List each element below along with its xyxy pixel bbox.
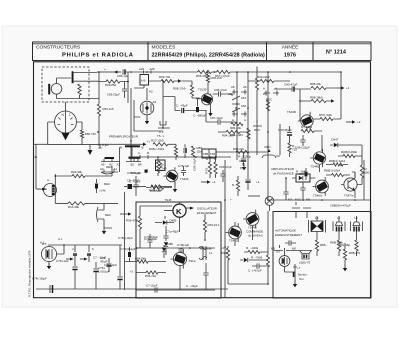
svg-text:R··-0k8: R··-0k8 — [296, 170, 306, 174]
connector box wires — [48, 122, 99, 145]
junction (207,72) — [206, 71, 208, 73]
ground gnd TSL39 — [208, 110, 212, 117]
junction (210,157) — [209, 156, 211, 158]
oscillator box — [136, 202, 221, 298]
capacitor C96 — [300, 140, 305, 142]
resistor R061 — [332, 173, 344, 176]
connector A26 box — [140, 75, 149, 86]
svg-text:A··: A·· — [47, 178, 51, 182]
capacitor C83c — [220, 174, 225, 176]
svg-text:L5(8)-T5: L5(8)-T5 — [299, 261, 310, 265]
svg-text:A·: A· — [275, 87, 278, 91]
junction (196,157) — [195, 156, 197, 158]
transistor TS46 — [313, 177, 329, 197]
record/play head RP — [44, 184, 57, 197]
diode D486b — [164, 242, 168, 246]
svg-text:R··: R·· — [232, 183, 236, 187]
svg-text:C86-25µF: C86-25µF — [107, 93, 120, 97]
wire — [124, 82, 126, 99]
svg-text:+1: +1 — [346, 86, 350, 90]
terminal arrow term +1b — [337, 86, 350, 90]
junction (131,141) — [130, 140, 132, 142]
wire — [218, 131, 248, 133]
lamp LA1 — [265, 197, 274, 206]
svg-text:R09-740: R09-740 — [159, 75, 170, 79]
transistor TS442 — [226, 223, 242, 242]
wire — [300, 88, 337, 101]
svg-text:R88-20k: R88-20k — [310, 82, 321, 86]
svg-text:C··(1)µF: C··(1)µF — [98, 143, 109, 147]
schematic frame — [34, 62, 371, 298]
svg-text:M5: M5 — [271, 247, 275, 251]
resistor R50 — [97, 104, 113, 116]
svg-text:PHILIPS et RADIOLA: PHILIPS et RADIOLA — [62, 53, 134, 59]
svg-text:H2·: H2· — [149, 90, 154, 94]
transistor TS443 — [243, 210, 259, 230]
wire — [162, 81, 164, 128]
svg-text:A31: A31 — [228, 92, 234, 96]
wire — [207, 72, 209, 94]
svg-text:1.6/10µF: 1.6/10µF — [98, 270, 110, 274]
resistor R85r — [315, 240, 318, 251]
junction (290,72) — [289, 71, 291, 73]
svg-text:R94-9k6: R94-9k6 — [135, 256, 146, 260]
wire — [33, 143, 138, 145]
svg-text:A5·: A5· — [231, 85, 236, 89]
wire — [204, 214, 206, 240]
svg-text:M0: M0 — [292, 247, 296, 251]
svg-text:M1C: M1C — [295, 198, 301, 202]
svg-text:B·: B· — [147, 151, 150, 155]
svg-text:C84: C84 — [210, 152, 216, 156]
resistor R69 — [203, 220, 219, 232]
resistor R84c — [231, 122, 243, 125]
svg-text:ENREGISTREMENT: ENREGISTREMENT — [275, 233, 302, 237]
diode D485 — [163, 219, 177, 225]
wire — [146, 115, 148, 121]
wire — [236, 72, 238, 160]
wire — [95, 262, 97, 289]
resistor R09m — [151, 185, 162, 188]
wire — [216, 151, 268, 153]
svg-text:C78-1µF: C78-1µF — [130, 171, 142, 175]
svg-text:C87-12µF: C87-12µF — [210, 116, 223, 120]
svg-text:C70(3)6µF: C70(3)6µF — [144, 235, 158, 239]
terminal arrow term +2 — [346, 120, 361, 124]
switch A31 — [232, 96, 240, 112]
svg-text:TS42F: TS42F — [180, 177, 189, 181]
svg-text:+1·: +1· — [256, 180, 260, 184]
svg-text:L1: L1 — [209, 251, 213, 255]
svg-text:A·x: A·x — [58, 237, 63, 241]
wire — [57, 94, 100, 98]
svg-text:C7··-12µF: C7··-12µF — [93, 256, 106, 260]
transistor TS47 (pnp) — [344, 178, 357, 191]
ground gnd head — [102, 228, 106, 235]
wire — [131, 88, 147, 160]
wire — [157, 157, 159, 176]
wire — [36, 288, 228, 290]
wire — [98, 82, 100, 105]
wire — [165, 226, 167, 241]
svg-text:C··-680µF: C··-680µF — [193, 114, 206, 118]
wire — [269, 205, 271, 211]
switch wiper bar B — [125, 145, 140, 147]
wire — [155, 216, 174, 223]
svg-text:K: K — [176, 207, 182, 216]
capacitor C86a — [117, 69, 129, 78]
wire — [98, 72, 100, 82]
terminal arrow left — [113, 71, 121, 73]
svg-text:B:5: B:5 — [42, 242, 47, 246]
svg-text:n1: n1 — [61, 113, 65, 117]
wire — [125, 261, 167, 263]
svg-text:C83-17µF: C83-17µF — [219, 165, 232, 169]
wire — [299, 89, 301, 121]
svg-text:de PUISSANCE: de PUISSANCE — [273, 172, 294, 176]
junction (215.5,157) — [215, 156, 217, 158]
resistor R88r — [343, 249, 360, 260]
boxed resistor RB1 — [156, 160, 166, 171]
svg-text:M5: M5 — [306, 198, 310, 202]
svg-text:·4·: ·4· — [71, 247, 75, 251]
junction (55.3,176) — [55, 175, 57, 177]
wire — [134, 100, 163, 131]
resistor R66 — [138, 216, 141, 229]
wire — [119, 245, 121, 289]
resistor R09 — [159, 75, 174, 83]
svg-text:C88(D)N-470µF: C88(D)N-470µF — [330, 204, 351, 208]
capacitor CH5 — [284, 83, 298, 92]
svg-text:A·: A· — [244, 118, 247, 122]
junction (237,104) — [236, 103, 238, 105]
wire — [65, 102, 67, 112]
svg-text:REC: REC — [265, 145, 271, 149]
svg-text:AMPLIFICATEUR: AMPLIFICATEUR — [271, 167, 294, 171]
wire — [98, 116, 100, 145]
svg-text:R·81: R·81 — [205, 167, 209, 174]
svg-text:OSCILLATEUR: OSCILLATEUR — [197, 207, 217, 211]
wire — [183, 166, 185, 176]
svg-text:R85-··: R85-·· — [320, 243, 328, 247]
svg-text:TS43B: TS43B — [287, 110, 296, 114]
svg-text:R88(1)-10k4: R88(1)-10k4 — [324, 169, 340, 173]
resistor R88m — [236, 150, 249, 153]
svg-text:L2: L2 — [355, 216, 359, 220]
resistor R63 — [301, 125, 314, 133]
wire — [103, 203, 105, 210]
svg-text:4k·: 4k· — [34, 155, 38, 159]
wire — [317, 238, 357, 256]
svg-text:R50-1k5: R50-1k5 — [103, 107, 114, 111]
wire — [136, 266, 215, 290]
transistor TS41 (socket) — [41, 246, 56, 261]
wire — [175, 144, 177, 160]
ground gnd TS41 — [47, 263, 51, 270]
svg-text:R03-860: R03-860 — [105, 83, 116, 87]
wire — [124, 192, 126, 290]
dashed box microphone — [42, 67, 89, 102]
wire — [197, 99, 199, 103]
wire — [285, 178, 287, 200]
svg-text:+3: +3 — [130, 269, 134, 273]
svg-text:A2: A2 — [109, 163, 113, 167]
wire — [235, 222, 253, 246]
wire — [228, 283, 268, 285]
svg-text:C96-(1)2µF: C96-(1)2µF — [295, 146, 310, 150]
wire — [55, 166, 112, 176]
resistor R09b — [257, 75, 274, 83]
cap C94 — [305, 168, 307, 171]
svg-text:A26: A26 — [139, 67, 145, 71]
wire — [289, 153, 291, 157]
svg-text:C··-12µF: C··-12µF — [129, 180, 141, 184]
junction (64,245) — [63, 244, 65, 246]
svg-text:A1: A1 — [114, 167, 118, 171]
capacitor C85b — [182, 108, 184, 113]
resistor R06 — [343, 154, 355, 157]
svg-text:U5: U5 — [276, 250, 280, 254]
wire — [248, 80, 290, 82]
svg-text:C762-2µF: C762-2µF — [104, 263, 117, 267]
capacitor C80d — [133, 185, 138, 187]
stub under bus — [98, 144, 101, 148]
capacitor C71o — [146, 284, 158, 293]
wire — [292, 177, 316, 179]
svg-text:C7(9)1µF: C7(9)1µF — [177, 243, 190, 247]
resistor R82r — [355, 240, 358, 251]
svg-text:R27-12k9: R27-12k9 — [151, 138, 164, 142]
wire — [321, 135, 323, 151]
wire — [108, 258, 110, 272]
arrowhead oscillator out — [190, 207, 194, 210]
svg-text:·5: ·5 — [91, 247, 94, 251]
wire — [54, 174, 56, 203]
svg-text:C88: C88 — [203, 152, 209, 156]
junction (163,81) — [162, 80, 164, 82]
junction (99,72) — [98, 71, 100, 73]
wire — [338, 155, 362, 157]
transistor TSL3F — [170, 249, 196, 268]
wire — [227, 246, 229, 284]
svg-text:AUTOMATIQUE: AUTOMATIQUE — [275, 229, 296, 233]
svg-text:B·: B· — [142, 146, 145, 150]
svg-text:C7·(1)µF: C7·(1)µF — [146, 284, 158, 288]
wire — [285, 253, 296, 284]
switch M5-M0 — [277, 245, 292, 253]
svg-text:A52: A52 — [241, 104, 247, 108]
wire — [48, 244, 122, 246]
diode D88 — [299, 176, 303, 180]
capacitor C47 — [287, 132, 292, 134]
svg-text:R08-22k·: R08-22k· — [233, 147, 245, 151]
svg-text:TS··x: TS··x — [157, 134, 165, 138]
switch A mid — [240, 163, 246, 168]
DIN connector socket — [55, 111, 77, 133]
svg-text:R88(4)-10k4: R88(4)-10k4 — [329, 159, 345, 163]
svg-text:A·: A· — [263, 87, 266, 91]
arrow into osc — [120, 213, 128, 215]
wire — [363, 160, 365, 200]
wire — [162, 186, 172, 188]
resistor R81r — [337, 240, 340, 251]
wire — [268, 199, 371, 201]
wire — [256, 67, 258, 96]
capacitor C89m — [245, 179, 250, 181]
resistor R01 — [78, 84, 81, 95]
svg-text:+·: +· — [104, 67, 107, 71]
svg-text:R90: R90 — [222, 251, 228, 255]
svg-text:R08-1k9: R08-1k9 — [211, 76, 222, 80]
svg-text:REC: REC — [104, 182, 110, 186]
junction (268,200) — [267, 199, 269, 201]
transistor TS44A — [310, 149, 325, 169]
capacitor C59 — [283, 192, 288, 194]
capacitor C87 — [210, 116, 223, 125]
svg-text:C··(-4)7µF: C··(-4)7µF — [248, 269, 262, 273]
capacitor C762 — [93, 268, 98, 270]
junction (322,200) — [321, 199, 323, 201]
resistor R94 — [137, 260, 148, 263]
wire — [185, 110, 207, 112]
svg-text:M7: M7 — [288, 198, 292, 202]
resistor R55a — [310, 82, 326, 90]
wire — [180, 248, 182, 253]
wire — [165, 248, 167, 256]
header table frame — [33, 42, 372, 61]
ground arrow below dial box — [89, 145, 91, 150]
svg-text:Monito: Monito — [298, 273, 307, 277]
junction (300,101) — [299, 100, 301, 102]
resistor R93 — [288, 143, 291, 153]
svg-text:REC: REC — [105, 213, 111, 217]
wire — [136, 272, 166, 274]
wire — [210, 157, 216, 178]
resistor R89m — [236, 180, 239, 191]
wire — [99, 81, 128, 83]
switch S2 — [158, 121, 170, 128]
wire — [205, 263, 207, 290]
capacitor C763 — [117, 276, 122, 278]
junction (128,81.5) — [127, 81, 129, 83]
switch monitor — [293, 264, 297, 278]
monitor speaker L58 — [300, 251, 312, 260]
junction (214.5,72) — [214, 71, 216, 73]
svg-text:R57(-3)9k: R57(-3)9k — [319, 113, 332, 117]
svg-text:ANNÉE: ANNÉE — [282, 44, 300, 51]
wire — [290, 126, 323, 143]
svg-text:R03-39k: R03-39k — [71, 170, 82, 174]
resistor R11 — [206, 74, 209, 83]
resistor R85v — [266, 100, 269, 111]
resistor R08 — [190, 85, 193, 96]
wire — [244, 251, 268, 253]
svg-text:R08m-13k4: R08m-13k4 — [149, 147, 164, 151]
resistor R81c — [208, 162, 211, 174]
wire — [126, 71, 341, 73]
capacitor C84e — [184, 148, 186, 153]
capacitor C72o — [203, 273, 208, 275]
switch contact lines — [101, 159, 141, 162]
wire — [224, 160, 226, 298]
resistor R59c — [156, 162, 159, 173]
ground gnd TS42 — [173, 186, 177, 193]
connector A51 pair — [232, 90, 247, 95]
wire — [168, 143, 176, 145]
wire — [302, 135, 304, 146]
wire — [181, 81, 199, 98]
junction (158,157) — [157, 156, 159, 158]
svg-text:+1·: +1· — [212, 180, 216, 184]
svg-text:+1: +1 — [147, 139, 151, 143]
wire — [247, 176, 249, 190]
ground gnd mid col — [242, 164, 246, 171]
svg-text:REC: REC — [266, 98, 272, 102]
terminal arrow term +1k — [201, 180, 216, 184]
switch contact S3b — [87, 245, 91, 262]
capacitor CH58 — [289, 240, 291, 245]
diode D486 — [162, 242, 174, 252]
ecap C760 — [129, 247, 131, 252]
osc coil L1 — [199, 246, 207, 260]
wire — [136, 247, 215, 249]
capacitor C78o — [163, 230, 179, 239]
resistor R03 — [71, 170, 85, 178]
wire — [146, 187, 172, 189]
switch contact row 2 — [101, 170, 118, 175]
junction (355,200) — [354, 199, 356, 201]
connector ticks — [144, 71, 152, 74]
ecap blob — [124, 186, 127, 188]
resistor R09v — [255, 78, 258, 90]
svg-text:R88-470: R88-470 — [349, 251, 360, 255]
svg-text:C85-17µF: C85-17µF — [214, 88, 227, 92]
svg-text:680: 680 — [365, 171, 370, 175]
resistor R60b — [191, 146, 194, 157]
svg-text:MODELES: MODELES — [152, 45, 177, 51]
svg-text:C47(36)µF: C47(36)µF — [278, 128, 292, 132]
junction (137,248) — [136, 247, 138, 249]
oscillator transistor TS45 — [173, 204, 186, 217]
svg-text:Oui: Oui — [299, 277, 304, 281]
svg-text:TS442: TS442 — [229, 239, 238, 243]
svg-text:R.T.P.E. Reproduction interdit: R.T.P.E. Reproduction interdite 1976 — [28, 250, 32, 297]
capacitor C70 — [144, 235, 158, 242]
svg-text:CH5-47µF: CH5-47µF — [284, 83, 298, 87]
svg-text:du NIVEAU: du NIVEAU — [248, 234, 263, 238]
wire — [149, 234, 151, 248]
wire — [344, 243, 346, 268]
junction (248,108) — [247, 107, 249, 109]
wire — [174, 182, 176, 186]
wire — [134, 85, 144, 88]
capacitor C79o — [177, 243, 190, 251]
svg-text:TS47/e: TS47/e — [344, 194, 354, 198]
resistor R067 — [146, 271, 158, 274]
resistor R10 — [68, 202, 85, 209]
wire — [313, 118, 341, 120]
wire — [302, 182, 304, 200]
svg-text:PRÉAMPLIFICATEUR: PRÉAMPLIFICATEUR — [109, 134, 138, 139]
svg-text:EFFACEMENT: EFFACEMENT — [197, 211, 217, 215]
wire — [247, 160, 249, 176]
resistor R58r — [360, 165, 363, 178]
diode CH47 — [331, 138, 339, 148]
svg-text:R10-39k: R10-39k — [68, 205, 79, 209]
svg-text:+7: +7 — [297, 266, 301, 270]
svg-text:R08-17k9: R08-17k9 — [173, 87, 186, 91]
resistor R064 — [333, 163, 343, 166]
